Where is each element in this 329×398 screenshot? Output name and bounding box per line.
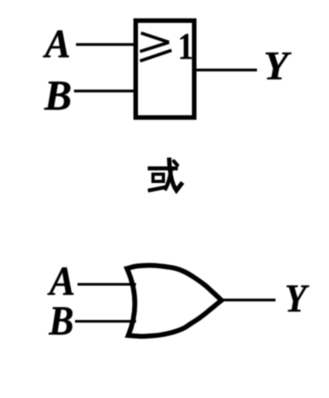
OR gate (ANSI distinctive shape) bbox=[127, 265, 222, 336]
node Y (bottom output label) bbox=[287, 285, 310, 311]
wire A to OR box bbox=[76, 43, 137, 46]
wire OR box output to Y bbox=[197, 69, 258, 72]
wire B to OR gate bbox=[75, 320, 136, 323]
label "or" (Chinese 或) drawn as strokes bbox=[148, 160, 182, 191]
node B (bottom input label) bbox=[49, 307, 73, 334]
label >=1 inside box bbox=[140, 33, 172, 61]
value label 1 (in >=1) bbox=[180, 34, 191, 59]
node A (top input label) bbox=[43, 30, 69, 57]
node B (top input label) bbox=[44, 82, 70, 110]
wire OR gate output to Y bbox=[220, 299, 276, 302]
OR gate U1 (IEC rectangular symbol) bbox=[136, 21, 195, 118]
wire A to OR gate bbox=[78, 283, 137, 286]
node Y (top output label) bbox=[266, 53, 292, 80]
wire B to OR box bbox=[74, 90, 137, 93]
node A (bottom input label) bbox=[47, 268, 73, 295]
